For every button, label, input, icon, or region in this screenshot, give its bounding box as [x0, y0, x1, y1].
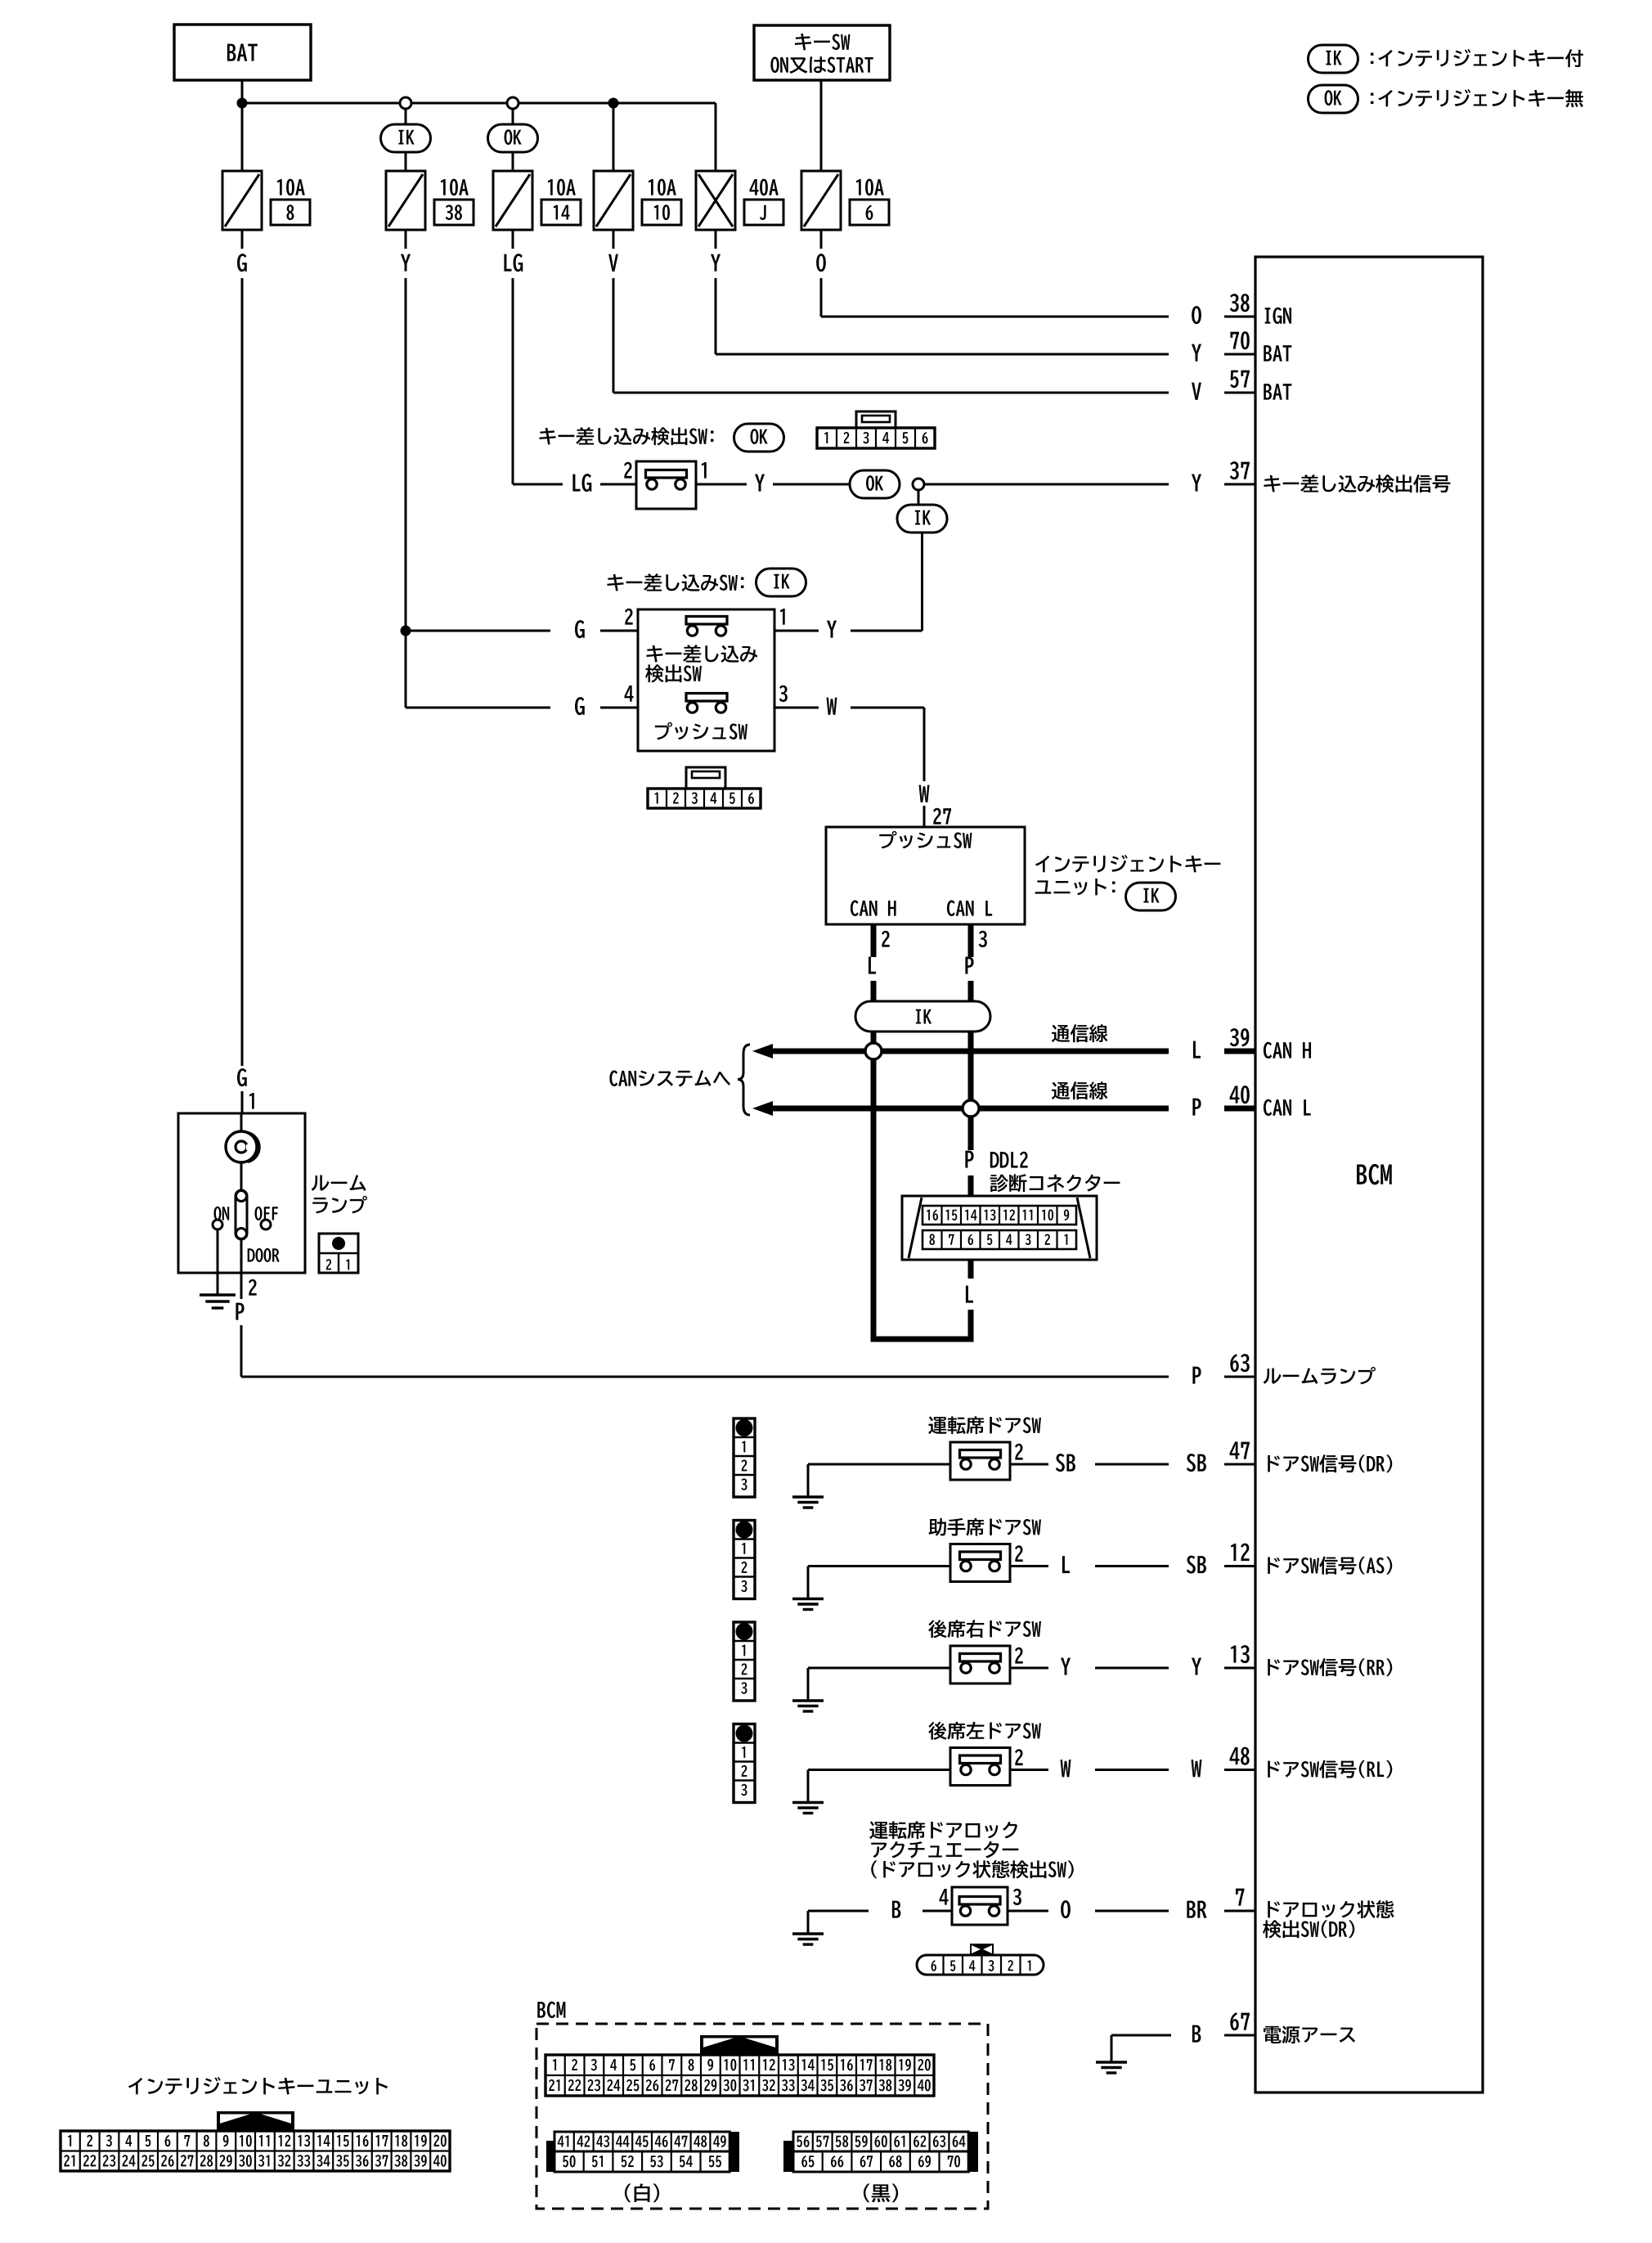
junction dot BAT [237, 98, 248, 109]
pin 38 IGN [1192, 294, 1291, 324]
wire G pin2 [406, 630, 550, 632]
pin 1 [780, 609, 785, 625]
label IK unit [128, 2078, 142, 2094]
label intelligent key unit [1035, 856, 1049, 872]
junction circle [913, 479, 924, 490]
pin 48 [1192, 1747, 1393, 1778]
thick wire pin2 L [871, 924, 877, 957]
OK oval col3 [488, 124, 538, 152]
pin 2 lamp [249, 1279, 257, 1296]
label 通信線 L [1052, 1082, 1070, 1099]
junction dot col4 [608, 98, 619, 109]
wire Y [405, 230, 407, 249]
label プッシュSW unit [879, 831, 896, 849]
label 運転席ドアSW [928, 1416, 946, 1434]
pin 7 door lock [1187, 1889, 1255, 1918]
BCM box [1255, 257, 1483, 2092]
connector 運転席ドアSW [734, 1418, 755, 1497]
legend OK [1309, 85, 1358, 113]
wire Y [715, 230, 717, 249]
ground lamp [200, 1295, 236, 1308]
BCM 40pin tab [700, 2035, 779, 2055]
pin 40 CAN L [1192, 1086, 1310, 1116]
pin 70 BAT [1192, 331, 1291, 362]
label DOOR [248, 1248, 255, 1261]
connector 後席右ドアSW [734, 1622, 755, 1701]
wire [512, 152, 514, 171]
wire lamp out [240, 1238, 243, 1273]
wire V to BAT57 [613, 278, 615, 393]
pin 27 label [933, 808, 941, 825]
wire B ground [1111, 2034, 1171, 2037]
pin 63 room lamp [1192, 1354, 1376, 1384]
ground [792, 1497, 824, 1508]
switch push [686, 694, 727, 713]
wire LG [512, 278, 514, 484]
pin 4 [625, 685, 634, 702]
connector 6pin top [856, 411, 896, 428]
pin 1 lamp [249, 1093, 254, 1109]
fusible link J 40A [696, 171, 735, 230]
door switch 後席右ドアSW [950, 1646, 1010, 1683]
wire G [241, 230, 244, 249]
wire Y col2 down [405, 278, 407, 631]
wire ON to ground [217, 1229, 219, 1295]
label 白 [625, 2183, 631, 2202]
junction circle CAN L [963, 1100, 979, 1117]
label 黒 [864, 2183, 869, 2202]
wire Y pin1 [774, 630, 819, 632]
OK oval on wire [850, 470, 900, 498]
wire Y [1010, 1667, 1048, 1670]
IK stadium [855, 1001, 990, 1032]
BCM 41-55 connector [546, 2141, 556, 2172]
pin 67 [1230, 2012, 1238, 2030]
label CAN L [947, 901, 955, 917]
ground [792, 1803, 824, 1814]
label CAN H [851, 901, 859, 917]
label key-insert-detect-SW OK [539, 428, 555, 445]
IK oval below junction [918, 490, 920, 505]
label actuator [869, 1821, 887, 1839]
connector 後席左ドアSW [734, 1724, 755, 1803]
wire [405, 109, 407, 124]
fuse 14 10A [493, 171, 532, 230]
label OFF [255, 1207, 263, 1220]
wire to ground [808, 1463, 950, 1466]
pin 37 key insert signal [1192, 461, 1450, 492]
BCM dashed box [536, 2024, 988, 2209]
IK oval col2 [381, 124, 431, 152]
wire BAT to bus [241, 80, 244, 103]
label 通信線 H [1052, 1025, 1070, 1042]
junction circle CAN H [865, 1043, 882, 1059]
lamp switch [240, 1162, 243, 1191]
thick wire P to DDL2 [968, 1108, 974, 1150]
door lock switch [952, 1887, 1008, 1925]
label 助手席ドアSW [928, 1518, 946, 1536]
label 診断コネクター [990, 1175, 1008, 1192]
wire to ground [808, 1769, 950, 1771]
fuse 10 10A [594, 171, 633, 230]
ground 67 [1096, 2062, 1127, 2073]
junction dot G [401, 626, 411, 636]
pin 39 CAN H [1193, 1028, 1311, 1059]
BCM 40pin connector [545, 2055, 934, 2096]
wire O [1008, 1910, 1048, 1913]
wire P [240, 1273, 243, 1299]
key insert detect switch OK [636, 461, 696, 509]
brace [738, 1045, 750, 1115]
wire [241, 103, 244, 249]
CAN L line [752, 1101, 773, 1116]
wire B [923, 1910, 952, 1913]
wire L [1010, 1565, 1048, 1567]
wire to ground [808, 1565, 950, 1567]
ground actuator [792, 1934, 824, 1944]
wire G pin4 [405, 631, 407, 708]
wire SB [1010, 1463, 1048, 1466]
wire G down [241, 278, 244, 1066]
connector 6pin bottom [686, 767, 725, 789]
junction circle col3 [507, 97, 518, 109]
wire to pin37 [924, 483, 1169, 486]
label 後席左ドアSW [928, 1722, 946, 1740]
fuse 8 10A [222, 171, 262, 230]
wire to ground [808, 1667, 950, 1670]
push SW unit box [826, 827, 1025, 924]
fuse 6 10A [801, 171, 841, 230]
door switch 助手席ドアSW [950, 1544, 1010, 1582]
label DDL2 [990, 1152, 999, 1167]
pin 13 [1192, 1645, 1392, 1676]
pin 2 [625, 609, 633, 625]
battery BAT box [174, 25, 311, 80]
wire O to IGN [820, 278, 823, 317]
thick wire L from DDL2 [968, 1260, 974, 1279]
ground [792, 1701, 824, 1711]
IK unit connector [61, 2131, 450, 2171]
BCM 56-70 connector [783, 2141, 793, 2172]
wire LG [512, 230, 514, 249]
label key-insert-SW IK [607, 574, 623, 591]
label BCM bottom [537, 2002, 545, 2017]
ground [792, 1599, 824, 1610]
lamp connector [319, 1234, 358, 1273]
IK unit connector tab [217, 2111, 294, 2131]
wire corner col5 [715, 103, 717, 171]
actuator connector [917, 1955, 1044, 1975]
CAN H line [752, 1044, 773, 1059]
actuator connector tab [970, 1944, 994, 1955]
thick wire pin3 P [968, 924, 974, 957]
pin 3 [779, 685, 788, 702]
wire key SW down [820, 80, 823, 171]
key switch source box [754, 25, 890, 80]
pin 57 BAT [1192, 371, 1291, 400]
room lamp box [178, 1113, 305, 1273]
switch key-insert-detect [686, 617, 727, 636]
wire W [1010, 1769, 1048, 1771]
connector 助手席ドアSW [734, 1521, 755, 1599]
label キー差し込み検出SW [646, 645, 662, 663]
BCM label [1357, 1164, 1367, 1184]
pin 47 [1187, 1441, 1392, 1472]
key insert SW box [638, 609, 774, 751]
thick wire L down [871, 1032, 877, 1339]
label CANシステムへ [609, 1071, 617, 1087]
door switch 運転席ドアSW [950, 1442, 1010, 1480]
door switch 後席左ドアSW [950, 1748, 1010, 1786]
label ON [214, 1207, 222, 1220]
wire [512, 109, 514, 124]
wire P to BCM [241, 1376, 1169, 1378]
wire V [613, 230, 615, 249]
fuse 38 10A [386, 171, 425, 230]
wire Y to BAT70 [715, 278, 717, 354]
legend IK [1309, 45, 1358, 73]
label 後席右ドアSW [928, 1620, 946, 1638]
bus wire [242, 102, 716, 105]
wire [405, 152, 407, 171]
label プッシュSW [655, 722, 672, 740]
wire O [820, 230, 823, 249]
wire W pin3 [774, 707, 819, 709]
bulb [240, 1113, 243, 1132]
wire [613, 103, 615, 171]
junction circle col2 [400, 97, 411, 109]
DDL2 connector [902, 1196, 1097, 1260]
label ルームランプ [312, 1175, 330, 1190]
wire Y [696, 483, 747, 486]
pin 12 [1187, 1544, 1392, 1575]
